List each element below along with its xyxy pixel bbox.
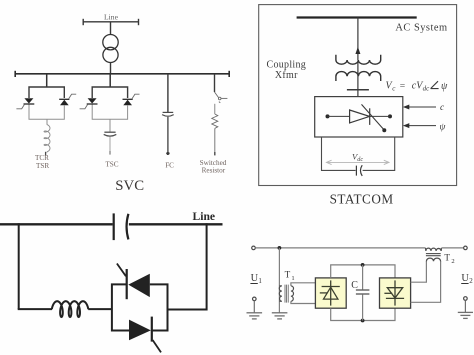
- capacitor (TSC): [104, 132, 117, 136]
- bus (SVC) with end ticks: [15, 71, 229, 77]
- label c: [440, 103, 445, 113]
- wire: right vertical: [206, 223, 208, 310]
- transformer (SVC step-down, two windings): [103, 35, 118, 63]
- terminal U1 (ground side): [253, 297, 257, 301]
- label Line (SVC top): [104, 12, 119, 21]
- wire: dc rail bottom: [331, 308, 395, 320]
- wire: bus down to coupling transformer: [357, 18, 359, 61]
- svg-text:Line: Line: [104, 12, 119, 21]
- resistor (switched) zigzag: [212, 114, 218, 128]
- capacitor FC: [162, 112, 174, 116]
- svg-text:U: U: [251, 273, 259, 284]
- thyristor (TCR left, pointing down): [16, 98, 34, 109]
- wire: converter 2 to T2 (bottom lead): [411, 261, 441, 302]
- junction dc bottom: [361, 319, 365, 323]
- label TSC: [105, 161, 118, 169]
- thyristor (TCR right, pointing up): [59, 94, 76, 105]
- svg-text:1: 1: [291, 275, 294, 282]
- wire: top line right segment: [442, 247, 464, 249]
- series capacitor (TCSC): [114, 213, 129, 240]
- wire: box to right vertical: [168, 309, 207, 311]
- svg-text:FC: FC: [165, 162, 174, 170]
- wire: TCR box to inductor: [46, 119, 48, 125]
- wire: U1 terminal to ground: [253, 301, 255, 313]
- AC system bus: [297, 16, 417, 18]
- wire: converter to dc capacitor (left): [322, 137, 356, 170]
- svg-text:AC System: AC System: [395, 23, 447, 34]
- wire: line bar with end ticks: [83, 19, 138, 25]
- wire: top line left segment: [255, 247, 425, 249]
- svg-text:SVC: SVC: [115, 178, 144, 194]
- transformer T1 secondary winding: [291, 286, 294, 301]
- junction T1 tap: [278, 246, 282, 250]
- label Vdc: [352, 151, 363, 163]
- junction dc top: [361, 263, 365, 267]
- TSC box outline: [92, 87, 127, 119]
- svg-text:c: c: [392, 84, 396, 92]
- thyristor (TCSC top, pointing left): [117, 264, 150, 300]
- svg-text:ψ: ψ: [440, 122, 446, 132]
- svg-text:dc: dc: [423, 84, 431, 92]
- gate line and dot (converter): [362, 104, 387, 132]
- ground (T1): [272, 313, 288, 319]
- svg-text:c: c: [440, 103, 445, 113]
- label AC System: [395, 23, 447, 34]
- wire: bus to TSC box: [109, 74, 111, 87]
- node dot (converter right): [388, 114, 392, 118]
- wire: TSC box to capacitor: [109, 119, 111, 132]
- label U1: [250, 273, 262, 285]
- TCSC thyristor box outline: [112, 284, 168, 330]
- label TCR TSR: [35, 154, 49, 170]
- label Switched Resistor: [200, 159, 227, 174]
- thyristor (TCSC bottom, pointing right): [129, 317, 161, 353]
- connection bar: [347, 89, 369, 91]
- control arrow psi: [403, 123, 436, 128]
- svg-text:Line: Line: [193, 210, 216, 223]
- thyristor (TSC right, pointing up): [123, 94, 140, 105]
- label U2: [461, 273, 473, 285]
- label SVC: [115, 178, 144, 194]
- wire: left drop: [18, 223, 20, 309]
- label T2: [444, 252, 454, 265]
- ground (U1): [247, 313, 263, 319]
- svg-text:TCR: TCR: [35, 154, 49, 162]
- converter 1 box: [315, 278, 346, 308]
- svg-text:1: 1: [258, 277, 262, 285]
- inductor (TCSC coil): [52, 301, 89, 317]
- svg-text:TSC: TSC: [105, 161, 118, 169]
- svg-text:Resistor: Resistor: [202, 166, 226, 174]
- wire: U2 terminal to ground: [464, 300, 466, 312]
- svg-text:ψ: ψ: [441, 81, 448, 92]
- wire: FC bottom: [166, 117, 169, 155]
- STATCOM enclosure box: [259, 5, 457, 186]
- capacitor C (dc link): [356, 265, 370, 321]
- wire: converter to dc capacitor (right): [363, 137, 395, 170]
- thyristor (TSC left, pointing down): [80, 98, 98, 109]
- svg-text:Coupling: Coupling: [266, 60, 306, 71]
- arrow (current direction, up): [355, 47, 360, 54]
- wire: TSC bottom tail: [109, 137, 111, 155]
- label Coupling Xfmr: [266, 60, 306, 81]
- equation Vc = cVdc angle psi: [386, 80, 449, 92]
- inductor (TCR coil): [44, 125, 50, 152]
- wire: switch to resistor: [214, 104, 216, 114]
- svg-text:2: 2: [451, 258, 454, 265]
- transmission line (left segment): [0, 223, 113, 225]
- wire: inductor to thyristor box: [88, 308, 112, 310]
- svg-text:Xfmr: Xfmr: [275, 70, 298, 81]
- wire: resistor bottom tail: [214, 128, 216, 155]
- svg-text:T: T: [444, 252, 450, 262]
- wire: transformer to bus: [110, 63, 112, 74]
- label psi: [440, 122, 446, 132]
- svg-text:TSR: TSR: [36, 162, 49, 170]
- thyristor (converter 2, pointing down): [384, 280, 404, 305]
- svg-text:U: U: [461, 273, 469, 284]
- wire: line bar to transformer: [110, 22, 112, 35]
- capacitor Vdc: [356, 165, 362, 176]
- wire: dc rail top: [331, 265, 395, 278]
- svg-text:=: =: [400, 80, 405, 91]
- wire: T1 primary drop: [278, 248, 280, 313]
- terminal U2 (line side): [464, 246, 468, 250]
- wire: T1 secondary to converter 1: [291, 283, 316, 304]
- wire: TCR bottom tail: [46, 152, 47, 156]
- svg-text:Vdc: Vdc: [352, 151, 363, 163]
- label T1: [285, 270, 295, 282]
- wire: transformer to converter box: [357, 62, 359, 97]
- converter 2 box: [380, 278, 411, 308]
- transformer T1 core: [285, 285, 288, 303]
- transformer T2 secondary winding: [426, 258, 440, 261]
- switch (switched resistor branch): [215, 92, 228, 103]
- terminal U2 (ground side): [464, 297, 468, 301]
- transformer T2 core: [426, 254, 441, 256]
- label FC: [165, 162, 174, 170]
- transformer T2 line winding: [426, 248, 442, 251]
- label Line (TCSC): [193, 210, 216, 223]
- TCR box outline: [29, 87, 64, 119]
- svg-text:STATCOM: STATCOM: [330, 191, 394, 206]
- ground (U2): [458, 312, 473, 318]
- wire: converter internal horizontal: [328, 115, 391, 117]
- measurement arrow Vdc: [326, 160, 389, 164]
- wire: bus to switch: [214, 74, 216, 92]
- wire: converter 2 to T2 (top lead): [411, 261, 427, 282]
- label C: [351, 280, 358, 291]
- terminal U1 (line side): [252, 246, 256, 250]
- transmission line (right segment): [129, 223, 223, 225]
- svg-text:T: T: [285, 270, 291, 280]
- thyristor (converter 1, pointing up): [320, 280, 340, 305]
- converter box (STATCOM): [315, 97, 403, 137]
- coupling transformer winding (converter side): [336, 72, 381, 81]
- label STATCOM: [330, 191, 394, 206]
- svg-text:2: 2: [469, 277, 473, 285]
- wire: bus to TCR box: [46, 74, 48, 87]
- coupling transformer winding (bus side): [336, 55, 381, 64]
- control arrow c: [403, 105, 436, 110]
- transformer T1 primary winding: [279, 286, 282, 301]
- node dot (converter left): [326, 114, 330, 118]
- wire: bottom left to inductor: [18, 308, 52, 310]
- thyristor (converter GTO): [350, 108, 370, 125]
- wire: bus to FC capacitor: [167, 74, 169, 112]
